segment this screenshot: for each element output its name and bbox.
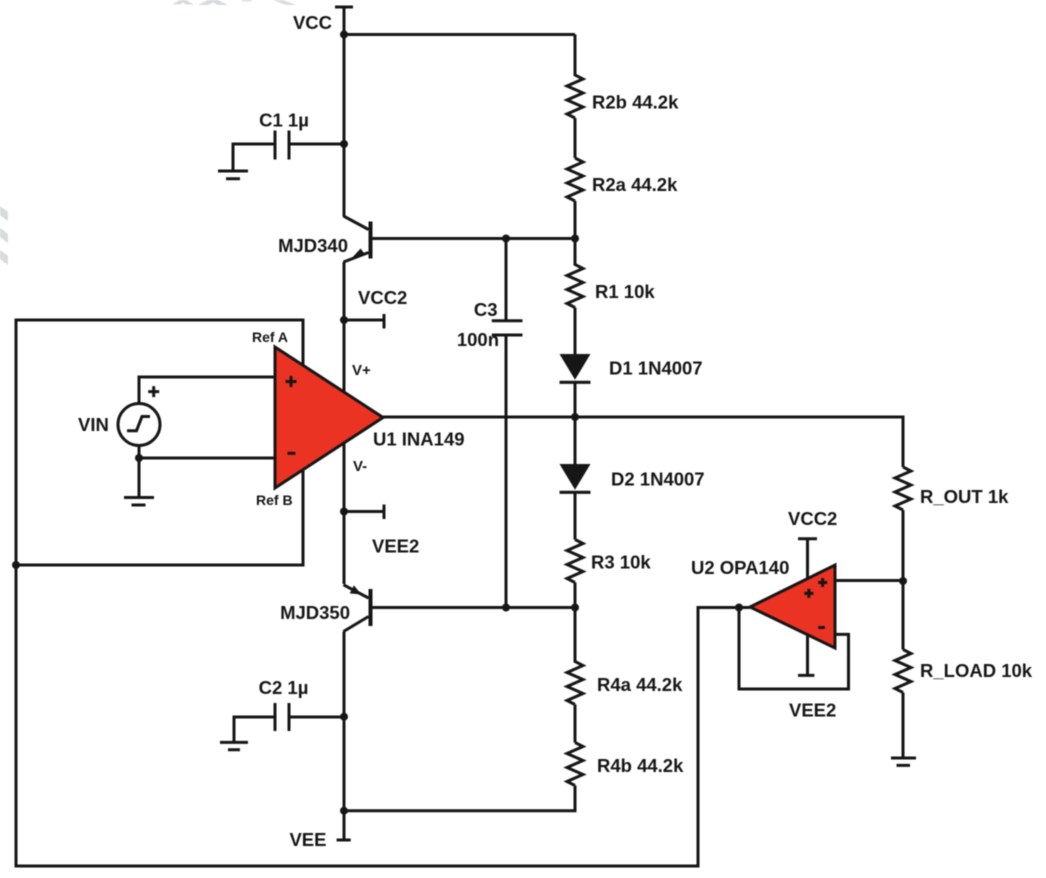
node VIN minus junction [135, 454, 143, 462]
wire Q1 emitter down [343, 262, 346, 320]
svg-text:VCC2: VCC2 [788, 508, 837, 529]
svg-text:100n: 100n [457, 329, 499, 350]
transistor Q2 MJD350 [344, 585, 371, 632]
watermark fragment left 1 [0, 206, 8, 221]
source VIN [118, 377, 275, 497]
watermark fragment top 3 [242, 0, 252, 2]
plus sign VIN [148, 386, 159, 397]
capacitor C1 [233, 131, 344, 172]
plus sign U2 pin [818, 578, 827, 587]
svg-text:R2a 44.2k: R2a 44.2k [592, 174, 678, 195]
wire Q1 base to node B1 [371, 237, 575, 240]
svg-text:V-: V- [353, 458, 367, 475]
node divider junction [899, 577, 907, 585]
svg-text:MJD340: MJD340 [278, 235, 348, 256]
wire V+ pin [343, 320, 346, 392]
node U2 output junction [735, 604, 743, 612]
node B2 junction [571, 604, 579, 612]
node C3 top junction [502, 235, 510, 243]
svg-text:D1 1N4007: D1 1N4007 [609, 358, 703, 379]
U2 power rail line [798, 539, 817, 676]
svg-text:V+: V+ [352, 362, 371, 379]
node OUT junction [571, 413, 579, 421]
VEE power symbol [337, 811, 351, 840]
capacitor C3 [492, 239, 523, 608]
svg-text:R4b 44.2k: R4b 44.2k [597, 755, 684, 776]
svg-text:VEE: VEE [289, 829, 326, 850]
node VCC junction [340, 31, 348, 39]
plus sign U1 [286, 376, 297, 387]
resistor R4a [567, 608, 583, 743]
resistor R3 [567, 540, 583, 609]
svg-text:R_OUT 1k: R_OUT 1k [920, 486, 1009, 507]
VCC power symbol [335, 7, 353, 35]
ground for R_LOAD [891, 758, 916, 765]
resistor R2a [567, 158, 583, 238]
node VEE junction [340, 807, 348, 815]
wire shield loop bottom [16, 565, 739, 866]
minus sign U1 [288, 452, 296, 455]
resistor R4b [567, 743, 583, 786]
wire VEE2 down to Q2 [343, 512, 346, 585]
svg-text:R2b 44.2k: R2b 44.2k [592, 92, 679, 113]
svg-text:C1 1µ: C1 1µ [259, 110, 309, 131]
wire U2 plus input [835, 579, 903, 582]
svg-text:VCC: VCC [293, 12, 332, 33]
node C2 junction [340, 713, 348, 721]
svg-text:D2 1N4007: D2 1N4007 [611, 469, 705, 490]
wire U2 feedback loop [739, 608, 849, 690]
svg-text:R_LOAD 10k: R_LOAD 10k [920, 660, 1033, 681]
ground for VIN [124, 498, 154, 506]
ground for C2 [220, 742, 248, 749]
op-amp U2 OPA140 [750, 565, 835, 648]
svg-text:U1 INA149: U1 INA149 [373, 429, 465, 450]
watermark fragment top 1 [172, 0, 194, 5]
wire Q2 collector down [343, 632, 346, 717]
node B1 junction [571, 235, 579, 243]
watermark fragment top 4 [273, 0, 296, 5]
transistor Q1 MJD340 [344, 216, 371, 262]
wire VEE node to rail B [344, 786, 575, 811]
input shield box [16, 320, 303, 565]
svg-text:Ref A: Ref A [252, 329, 288, 345]
svg-text:R4a 44.2k: R4a 44.2k [597, 674, 683, 695]
svg-text:C3: C3 [474, 299, 498, 320]
node VCC2 junction [340, 316, 348, 324]
svg-text:VEE2: VEE2 [372, 536, 419, 557]
node VEE2 junction [340, 508, 348, 516]
capacitor C2 [234, 703, 344, 742]
node box bottom-left junction [12, 561, 20, 569]
node C3 bottom junction [502, 604, 510, 612]
wire Q2 base to node B2 [372, 606, 575, 609]
watermark fragment left 2 [0, 228, 8, 243]
VEE2 stub at Q2 emitter [344, 505, 384, 520]
svg-text:VIN: VIN [78, 414, 109, 435]
resistor R_OUT [895, 467, 911, 650]
wire output net [383, 417, 903, 467]
plus sign U2 inner [804, 589, 813, 598]
wire VCC node to R2b rail [344, 33, 575, 36]
resistor R1 [567, 239, 583, 355]
wire C2 node down to VEE node [343, 717, 346, 811]
svg-text:U2 OPA140: U2 OPA140 [691, 557, 789, 578]
node C1/rail junction [340, 140, 348, 148]
diode D2 [560, 417, 591, 540]
resistor R_LOAD [895, 650, 911, 758]
svg-text:VCC2: VCC2 [358, 287, 407, 308]
VCC2 stub at Q1 emitter [344, 314, 384, 329]
svg-text:Ref B: Ref B [256, 492, 293, 508]
wire U2 output tip [739, 606, 750, 609]
watermark fragment top 2 [198, 0, 228, 5]
minus sign U2 [818, 626, 825, 629]
wire VCC down main rail [343, 35, 346, 217]
svg-text:MJD350: MJD350 [280, 602, 350, 623]
svg-text:R1 10k: R1 10k [595, 281, 655, 302]
svg-text:R3 10k: R3 10k [591, 552, 651, 573]
diode D1 [560, 354, 591, 417]
watermark fragment left 3 [0, 250, 8, 265]
ground for C1 [218, 171, 248, 179]
wire V- pin [343, 443, 346, 512]
resistor R2b [567, 35, 583, 159]
svg-text:VEE2: VEE2 [789, 700, 836, 721]
op-amp U1 INA149 [275, 347, 383, 488]
svg-text:C2 1µ: C2 1µ [259, 677, 309, 698]
